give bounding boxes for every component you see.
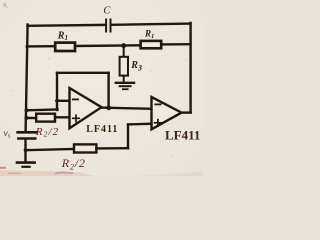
node: vs/R2-lower junction [24,148,28,152]
wire: feedback loop top [57,72,109,74]
paper speckles [12,58,186,156]
node: feedback/output junction [106,105,111,110]
resistor R1 (left) [55,43,75,51]
speckle top-left corner [4,3,7,7]
wire: vs node to R2/2 lower [26,149,74,150]
wire: R2/2 lower to riser [96,147,128,150]
faint smudges along bottom edge [8,173,21,174]
svg-text:C: C [103,6,111,17]
wire: feedback loop right vertical [107,73,109,108]
wire: op-amp U1 inverting input [57,100,70,102]
ground (below vs) [17,161,35,164]
wire: frame to inverting node [27,108,58,111]
voltage source vs plates [18,131,37,134]
wire: U2 output to right frame [182,111,191,113]
wire: vs to ground [24,140,26,162]
resistor R2/2 (lower) [74,144,96,152]
resistor R2/2 (upper) [36,114,55,122]
op-amp U1 [70,88,102,128]
node: junction on second rail [121,43,126,48]
node: frame T-junction lower [24,116,28,120]
wire: right frame vertical [189,23,191,113]
wire: second rail middle segment [75,44,141,47]
wire: feedback loop left vertical (to inverting node) [56,73,58,110]
ground (below R3) [116,82,134,84]
capacitor C [105,20,107,32]
wire: second rail left segment [27,45,55,48]
wire: R3 bottom lead [123,76,125,83]
pink scanner smear bottom-left [0,170,95,176]
node: frame T-junction upper [25,108,29,112]
wire: top horizontal (right of C) [112,24,191,25]
wire: left frame vertical [26,25,28,132]
U1 plus sign [73,115,79,121]
wire: riser up to + input level [127,124,129,148]
wire: U1 output to U2 inverting input [102,108,152,109]
wire: R2/2 to op-amp U1 + input [55,116,70,118]
wire: second rail right segment [161,43,190,46]
U2 plus sign [155,120,162,126]
svg-text:LF411: LF411 [165,127,200,142]
svg-text:LF411: LF411 [86,124,118,135]
U2 minus sign [155,103,160,105]
wire: R3 top lead [123,46,125,57]
node: inverting branch junction [55,99,59,103]
wire: non-inverting lead from frame [26,117,36,119]
U1 minus sign [73,98,78,100]
resistor R3 [120,57,128,76]
wire: to op-amp U2 + input [128,122,152,125]
wire: top horizontal (left of C) [28,24,105,27]
resistor R1 (right) [141,41,162,48]
op-amp U2 [152,97,182,129]
